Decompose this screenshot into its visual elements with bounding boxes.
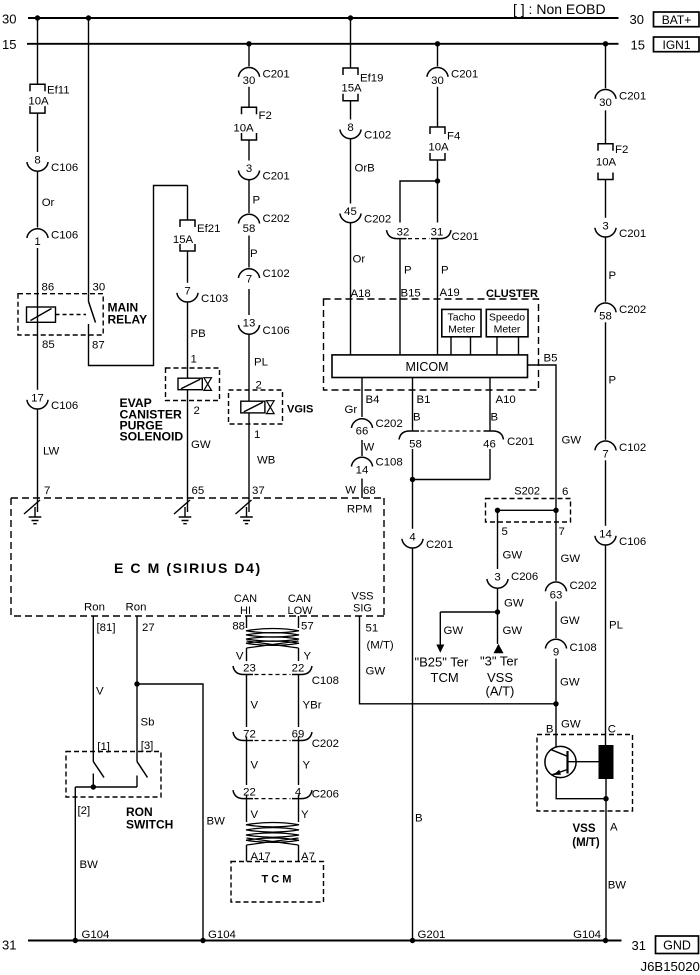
- svg-text:V: V: [236, 651, 244, 663]
- svg-text:C202: C202: [263, 213, 290, 225]
- svg-text:31: 31: [2, 938, 16, 953]
- svg-text:C201: C201: [619, 228, 646, 240]
- svg-text:RPM: RPM: [347, 504, 372, 516]
- svg-text:Ef11: Ef11: [47, 85, 70, 97]
- svg-text:Ef19: Ef19: [360, 73, 383, 85]
- svg-text:14: 14: [356, 465, 369, 477]
- svg-text:G104: G104: [208, 929, 236, 941]
- svg-text:37: 37: [252, 485, 265, 497]
- svg-text:10A: 10A: [596, 157, 617, 169]
- svg-text:S202: S202: [514, 486, 540, 498]
- svg-text:C202: C202: [570, 580, 597, 592]
- svg-text:GW: GW: [561, 553, 581, 565]
- svg-text:86: 86: [42, 282, 55, 294]
- svg-text:C202: C202: [376, 418, 403, 430]
- svg-text:VSS: VSS: [572, 823, 595, 835]
- svg-text:22: 22: [243, 786, 256, 798]
- svg-text:HI: HI: [240, 605, 251, 617]
- svg-text:C102: C102: [619, 442, 646, 454]
- svg-text:A19: A19: [440, 287, 460, 299]
- svg-text:T C M: T C M: [262, 874, 292, 886]
- svg-text:CAN: CAN: [234, 593, 257, 605]
- svg-text:Meter: Meter: [494, 324, 521, 336]
- svg-text:BW: BW: [608, 880, 627, 892]
- svg-text:RELAY: RELAY: [108, 313, 148, 327]
- svg-text:1: 1: [191, 354, 197, 366]
- svg-text:3: 3: [494, 572, 500, 584]
- svg-text:B15: B15: [401, 288, 421, 300]
- svg-text:23: 23: [243, 662, 256, 674]
- svg-text:4: 4: [409, 531, 415, 543]
- svg-text:GW: GW: [503, 625, 523, 637]
- svg-text:CLUSTER: CLUSTER: [486, 288, 538, 300]
- svg-text:14: 14: [599, 528, 612, 540]
- svg-text:C206: C206: [511, 571, 538, 583]
- svg-text:[ ] : Non EOBD: [ ] : Non EOBD: [513, 1, 606, 17]
- svg-text:GW: GW: [561, 719, 581, 731]
- svg-text:Sb: Sb: [141, 717, 155, 729]
- svg-text:5: 5: [502, 526, 508, 538]
- svg-text:57: 57: [301, 621, 314, 633]
- svg-text:C201: C201: [507, 436, 534, 448]
- svg-text:63: 63: [550, 589, 563, 601]
- svg-text:85: 85: [42, 339, 55, 351]
- svg-text:W: W: [364, 442, 375, 454]
- svg-text:V: V: [251, 809, 259, 821]
- svg-text:Gr: Gr: [345, 404, 358, 416]
- svg-text:15A: 15A: [173, 234, 194, 246]
- svg-text:B: B: [415, 813, 423, 825]
- svg-text:Ron: Ron: [126, 602, 147, 614]
- svg-text:46: 46: [483, 439, 496, 451]
- svg-text:C103: C103: [201, 293, 228, 305]
- svg-text:"3" Ter: "3" Ter: [480, 654, 519, 669]
- svg-text:3: 3: [602, 220, 608, 232]
- svg-text:15: 15: [2, 37, 16, 52]
- svg-text:TCM: TCM: [431, 670, 459, 685]
- svg-text:WB: WB: [257, 455, 275, 467]
- svg-text:(M/T): (M/T): [367, 640, 394, 652]
- svg-text:8: 8: [34, 155, 40, 167]
- svg-text:15: 15: [631, 38, 645, 53]
- svg-text:YBr: YBr: [303, 700, 322, 712]
- svg-text:F2: F2: [259, 110, 272, 122]
- svg-text:8: 8: [347, 122, 353, 134]
- svg-text:C106: C106: [51, 230, 78, 242]
- svg-text:B: B: [413, 412, 421, 424]
- svg-text:"B25" Ter: "B25" Ter: [415, 655, 469, 670]
- svg-text:G104: G104: [573, 929, 601, 941]
- svg-text:GW: GW: [444, 625, 464, 637]
- svg-text:[81]: [81]: [97, 622, 116, 634]
- svg-text:C106: C106: [263, 325, 290, 337]
- svg-text:Ron: Ron: [84, 602, 105, 614]
- svg-text:C102: C102: [263, 268, 290, 280]
- svg-text:66: 66: [356, 426, 369, 438]
- svg-text:C202: C202: [312, 738, 339, 750]
- svg-text:72: 72: [243, 728, 256, 740]
- svg-text:7: 7: [246, 274, 252, 286]
- svg-text:[3]: [3]: [141, 740, 154, 752]
- svg-text:P: P: [404, 265, 412, 277]
- svg-text:10A: 10A: [28, 96, 49, 108]
- svg-text:31: 31: [632, 938, 646, 953]
- svg-text:G201: G201: [418, 929, 446, 941]
- svg-text:3: 3: [246, 163, 252, 175]
- svg-text:C201: C201: [263, 68, 290, 80]
- svg-text:Y: Y: [304, 651, 312, 663]
- svg-text:GW: GW: [562, 435, 582, 447]
- svg-text:OrB: OrB: [355, 163, 375, 175]
- svg-text:C202: C202: [364, 214, 391, 226]
- svg-text:2: 2: [194, 405, 200, 417]
- svg-text:30: 30: [599, 97, 612, 109]
- svg-text:15A: 15A: [341, 83, 362, 95]
- svg-text:C108: C108: [376, 457, 403, 469]
- svg-text:7: 7: [559, 526, 565, 538]
- svg-text:C201: C201: [619, 90, 646, 102]
- svg-text:7: 7: [44, 485, 50, 497]
- svg-text:B: B: [546, 724, 554, 736]
- svg-text:C108: C108: [570, 642, 597, 654]
- svg-text:30: 30: [243, 75, 256, 87]
- svg-text:C102: C102: [364, 130, 391, 142]
- svg-text:CAN: CAN: [288, 593, 311, 605]
- svg-text:GW: GW: [560, 615, 580, 627]
- svg-text:7: 7: [184, 285, 190, 297]
- svg-text:Ef21: Ef21: [197, 223, 220, 235]
- svg-text:Or: Or: [353, 254, 366, 266]
- svg-text:C106: C106: [619, 536, 646, 548]
- svg-text:30: 30: [630, 12, 644, 27]
- svg-text:C106: C106: [51, 162, 78, 174]
- svg-text:30: 30: [93, 282, 106, 294]
- svg-text:(A/T): (A/T): [486, 684, 515, 699]
- svg-text:B5: B5: [544, 353, 558, 365]
- svg-text:P: P: [253, 195, 261, 207]
- svg-text:Tacho: Tacho: [447, 312, 475, 324]
- svg-text:E C M (SIRIUS D4): E C M (SIRIUS D4): [114, 560, 262, 576]
- svg-text:C106: C106: [51, 400, 78, 412]
- svg-text:A18: A18: [351, 288, 371, 300]
- svg-text:V: V: [96, 686, 104, 698]
- svg-text:27: 27: [142, 622, 155, 634]
- svg-text:GW: GW: [560, 677, 580, 689]
- svg-text:10A: 10A: [233, 123, 254, 135]
- svg-text:GND: GND: [663, 939, 691, 953]
- svg-text:88: 88: [232, 621, 245, 633]
- svg-text:31: 31: [431, 226, 444, 238]
- svg-text:C201: C201: [426, 539, 453, 551]
- svg-text:J6B15020: J6B15020: [641, 959, 700, 974]
- svg-text:GW: GW: [191, 439, 211, 451]
- svg-text:W: W: [345, 485, 356, 497]
- svg-text:6: 6: [562, 486, 568, 498]
- svg-text:P: P: [441, 265, 449, 277]
- svg-text:P: P: [250, 248, 258, 260]
- svg-text:17: 17: [31, 392, 44, 404]
- svg-text:MICOM: MICOM: [405, 360, 448, 374]
- svg-text:C201: C201: [451, 68, 478, 80]
- svg-text:[2]: [2]: [78, 805, 91, 817]
- svg-text:VGIS: VGIS: [287, 404, 313, 416]
- svg-text:C108: C108: [312, 675, 339, 687]
- svg-text:LW: LW: [43, 446, 59, 458]
- svg-text:Y: Y: [301, 809, 309, 821]
- svg-text:PB: PB: [191, 328, 206, 340]
- svg-text:SWITCH: SWITCH: [126, 818, 173, 832]
- svg-text:69: 69: [292, 728, 305, 740]
- svg-text:Meter: Meter: [448, 324, 475, 336]
- svg-text:30: 30: [431, 75, 444, 87]
- svg-text:58: 58: [409, 439, 422, 451]
- svg-text:58: 58: [599, 310, 612, 322]
- svg-text:68: 68: [363, 485, 376, 497]
- svg-text:BAT+: BAT+: [662, 13, 691, 27]
- svg-text:G104: G104: [82, 929, 110, 941]
- svg-text:VSS: VSS: [351, 591, 373, 603]
- svg-text:C202: C202: [619, 304, 646, 316]
- svg-text:BW: BW: [80, 859, 99, 871]
- svg-text:SOLENOID: SOLENOID: [120, 430, 184, 444]
- svg-text:P: P: [609, 270, 617, 282]
- svg-text:87: 87: [92, 340, 105, 352]
- svg-text:BW: BW: [207, 816, 226, 828]
- svg-text:C201: C201: [263, 171, 290, 183]
- svg-text:1: 1: [34, 236, 40, 248]
- svg-text:GW: GW: [366, 666, 386, 678]
- svg-text:9: 9: [553, 647, 559, 659]
- svg-text:(M/T): (M/T): [572, 837, 600, 849]
- svg-text:P: P: [609, 375, 617, 387]
- svg-text:IGN1: IGN1: [662, 38, 690, 52]
- svg-text:Speedo: Speedo: [489, 312, 525, 324]
- svg-text:F2: F2: [615, 144, 628, 156]
- svg-text:LOW: LOW: [287, 605, 313, 617]
- svg-text:22: 22: [292, 662, 305, 674]
- svg-text:V: V: [251, 700, 259, 712]
- svg-text:Or: Or: [42, 197, 55, 209]
- svg-text:58: 58: [243, 223, 256, 235]
- svg-text:30: 30: [2, 12, 16, 27]
- svg-text:A10: A10: [496, 394, 516, 406]
- svg-text:A: A: [610, 822, 618, 834]
- svg-text:GW: GW: [504, 598, 524, 610]
- svg-text:PL: PL: [254, 357, 268, 369]
- svg-text:C: C: [608, 724, 616, 736]
- svg-text:1: 1: [254, 429, 260, 441]
- svg-text:45: 45: [344, 206, 357, 218]
- svg-text:32: 32: [397, 226, 410, 238]
- svg-text:GW: GW: [503, 550, 523, 562]
- svg-text:C201: C201: [452, 231, 479, 243]
- svg-text:B4: B4: [366, 394, 380, 406]
- svg-text:Y: Y: [303, 760, 311, 772]
- svg-text:10A: 10A: [428, 142, 449, 154]
- svg-text:65: 65: [192, 485, 205, 497]
- svg-text:B: B: [491, 412, 499, 424]
- svg-text:B1: B1: [417, 394, 431, 406]
- svg-text:V: V: [251, 760, 259, 772]
- svg-text:C206: C206: [312, 789, 339, 801]
- svg-text:51: 51: [366, 623, 379, 635]
- svg-text:SIG: SIG: [353, 603, 372, 615]
- svg-text:F4: F4: [447, 131, 460, 143]
- svg-text:7: 7: [602, 448, 608, 460]
- svg-text:PL: PL: [609, 620, 623, 632]
- svg-text:13: 13: [243, 318, 256, 330]
